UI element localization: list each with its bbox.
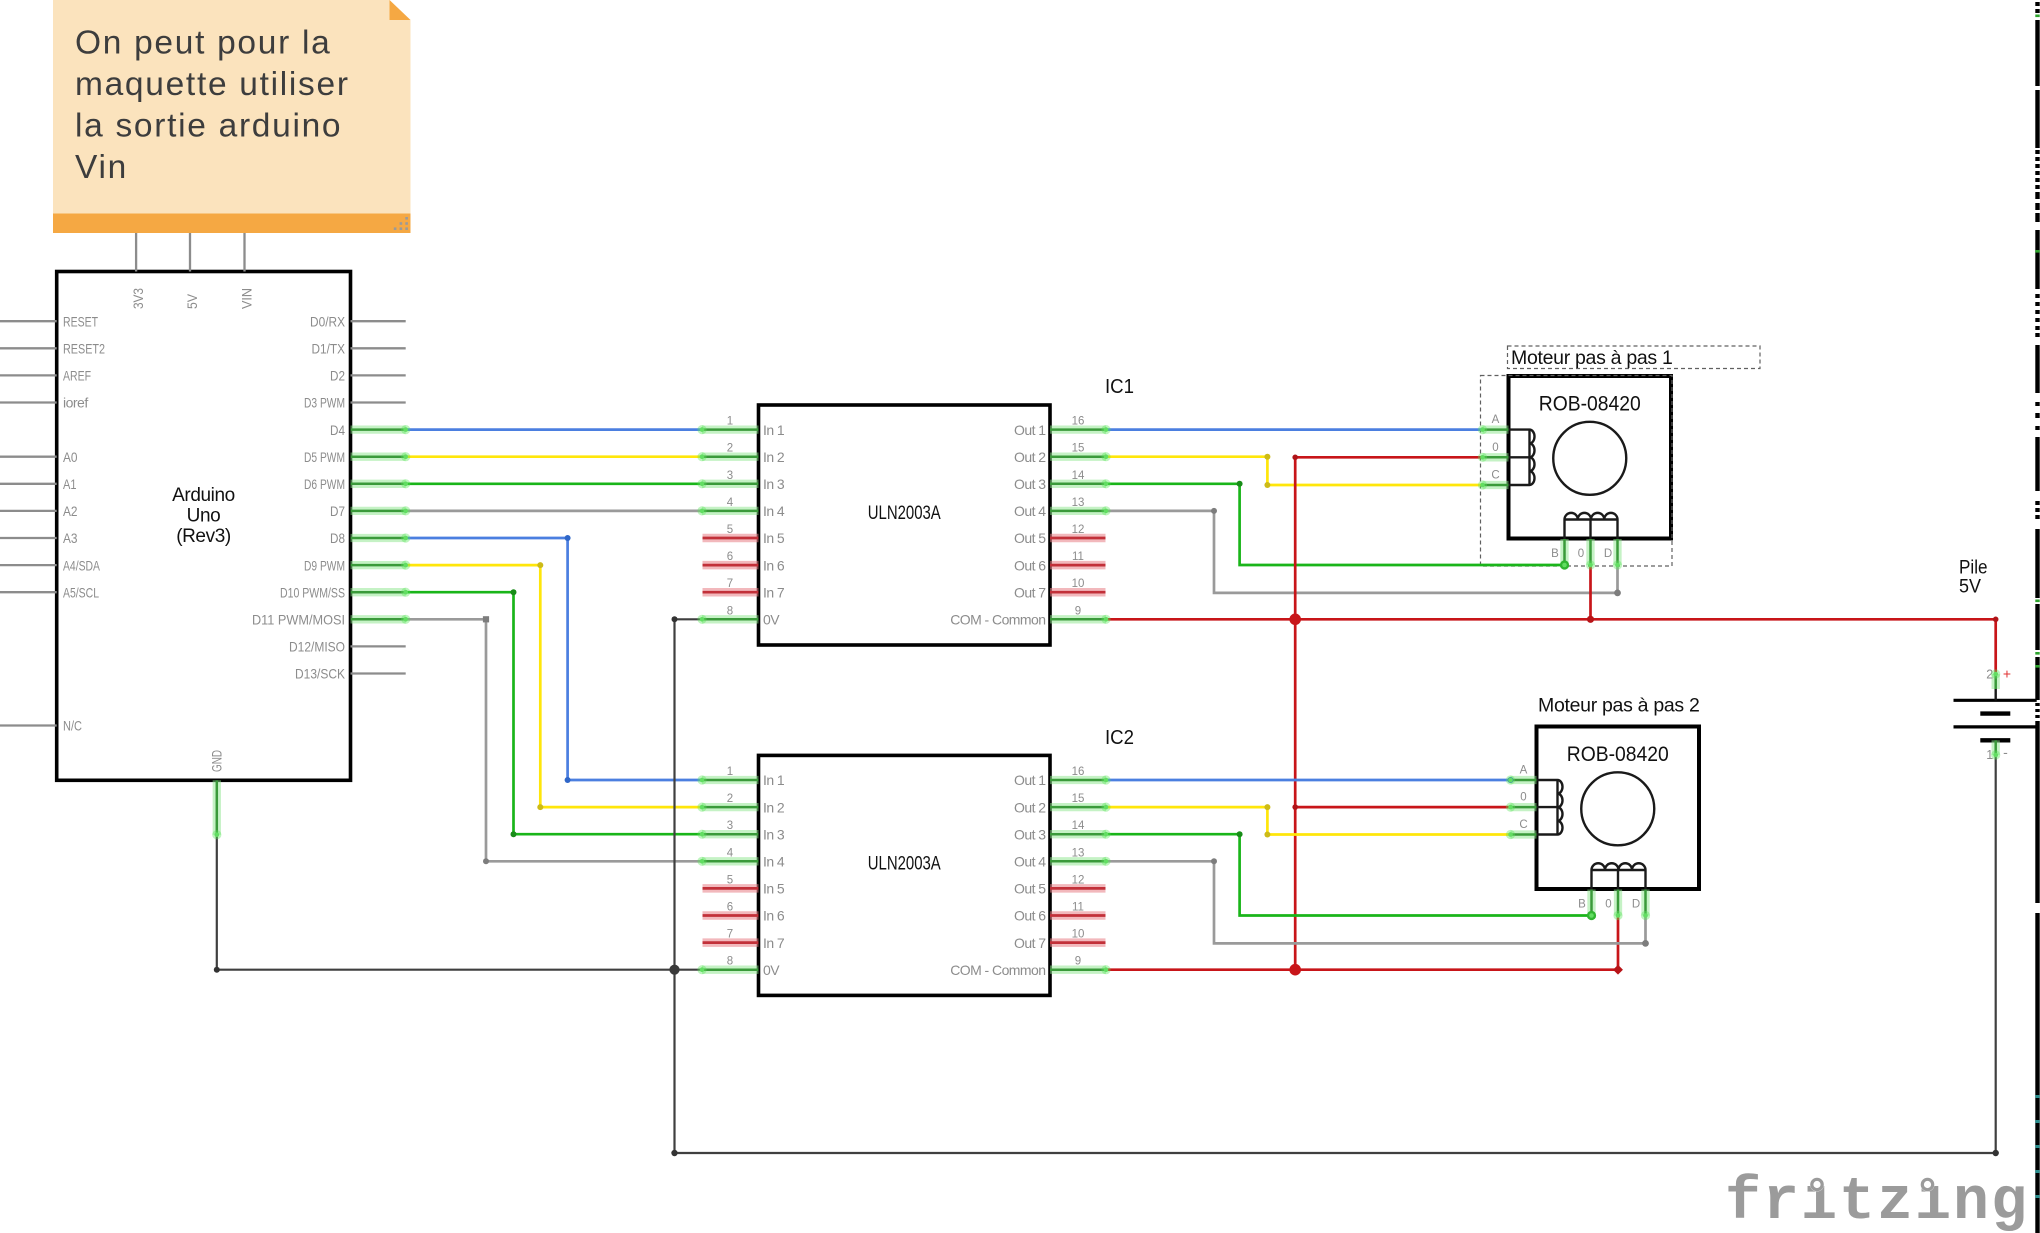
svg-text:Moteur pas à pas 2: Moteur pas à pas 2 (1538, 695, 1700, 717)
svg-text:4: 4 (727, 497, 734, 509)
svg-text:RESET: RESET (63, 313, 98, 329)
motor M1 pin A (1507, 428, 1530, 430)
wire D11 bend points (483, 616, 489, 622)
arduino pin D12/MISO (351, 645, 406, 647)
svg-text:A: A (1520, 765, 1528, 777)
IC IC2 pin 15 (Out 2) (1050, 803, 1106, 811)
wire D8 to IC2 In1 (blue) (406, 538, 702, 780)
wire IC2 Out1 to M2 pin A (blue) (1106, 779, 1511, 782)
svg-text:D4: D4 (330, 422, 345, 438)
IC IC1 pin 6 (In 6) (703, 561, 759, 570)
svg-text:2: 2 (727, 793, 733, 805)
svg-text:In 2: In 2 (763, 799, 785, 815)
motor M2 (ROB-08420 stepper) body (1537, 727, 1700, 890)
svg-text:Out 2: Out 2 (1014, 449, 1046, 465)
svg-text:D: D (1632, 899, 1640, 911)
svg-text:COM - Common: COM - Common (950, 612, 1045, 628)
wire D8 bend points (565, 535, 571, 541)
wire D10 to IC2 In3 (green) (406, 592, 702, 834)
svg-text:0: 0 (1492, 442, 1498, 454)
battery BT1 plate + (long) (1954, 699, 2037, 702)
IC IC1 pin 2 (In 2) (702, 453, 759, 461)
svg-text:D10 PWM/SS: D10 PWM/SS (280, 584, 345, 600)
svg-text:8: 8 (727, 956, 733, 968)
svg-text:15: 15 (1072, 793, 1085, 805)
motor M2 left winding (coil A-0-C) (1558, 780, 1563, 835)
svg-text:In 4: In 4 (763, 854, 785, 870)
arduino pin D8 (351, 534, 406, 542)
IC IC1 (ULN2003A) body (759, 405, 1051, 645)
svg-text:7: 7 (727, 929, 733, 941)
junction M1-0 on +5V bus (1587, 616, 1594, 623)
wire Out2 bend points (1264, 454, 1270, 460)
svg-text:Out 4: Out 4 (1014, 503, 1046, 519)
svg-text:D2: D2 (330, 368, 345, 384)
svg-text:C: C (1491, 470, 1499, 482)
motor M2 pin B (1590, 870, 1592, 891)
junction GND net (669, 965, 679, 975)
svg-text:D0/RX: D0/RX (310, 313, 346, 329)
motor M1 pin B (1563, 520, 1565, 541)
IC IC1 pin 10 (Out 7) (1050, 588, 1106, 597)
svg-text:VIN: VIN (239, 288, 255, 309)
IC IC2 pin 6 (In 6) (703, 911, 759, 920)
note drag handle dots (405, 217, 408, 220)
wire D4 to IC1 In1 (blue) (406, 428, 702, 431)
IC IC2 pin 4 (In 4) (702, 857, 759, 865)
svg-text:D3 PWM: D3 PWM (304, 395, 345, 411)
arduino pin A0 (0, 456, 57, 458)
svg-text:0V: 0V (763, 612, 780, 628)
wire D9 to IC2 In2 (yellow) (406, 565, 702, 807)
motor M2 pin D (1644, 870, 1646, 891)
svg-text:D11 PWM/MOSI: D11 PWM/MOSI (252, 612, 345, 628)
junction at M1 pin B (1560, 560, 1569, 569)
wire GND bend point (214, 967, 220, 973)
arduino pin A3 (0, 537, 57, 539)
svg-text:Out 6: Out 6 (1014, 908, 1046, 924)
svg-text:A4/SDA: A4/SDA (63, 557, 100, 573)
wire Arduino GND to IC2 0V (black) (217, 835, 702, 970)
wire +5V bus branch to M2 pin 0 (red) (1295, 806, 1510, 809)
svg-text:4: 4 (727, 847, 734, 859)
motor M1 label box (dashed) (1508, 346, 1761, 369)
svg-text:15: 15 (1072, 443, 1085, 455)
arduino pin A1 (0, 483, 57, 485)
arduino pin D5 PWM (351, 453, 406, 461)
motor M2 bottom winding (coil B-0-D) (1592, 863, 1646, 870)
wire IC1 Out3 to M1 pin B (green) (1106, 484, 1565, 565)
arduino pin A2 (0, 510, 57, 512)
IC IC2 pin 11 (Out 6) (1050, 911, 1106, 920)
svg-text:14: 14 (1072, 470, 1085, 482)
wire IC1 COM to battery + (red) (1106, 619, 1996, 674)
svg-text:11: 11 (1072, 551, 1084, 563)
svg-text:0: 0 (1520, 792, 1526, 804)
arduino U1 (Arduino Uno Rev3) body (57, 272, 351, 781)
note fold corner (390, 0, 411, 20)
motor M1 pin C (1507, 484, 1530, 486)
svg-text:A1: A1 (63, 476, 77, 492)
wire Out3 bend point (1237, 481, 1243, 487)
motor M2 pin C (1535, 833, 1558, 835)
svg-text:B: B (1578, 899, 1586, 911)
svg-text:0: 0 (1605, 899, 1611, 911)
arduino pin D3 PWM (351, 401, 406, 403)
svg-text:RESET2: RESET2 (63, 341, 105, 357)
IC IC1 pin 5 (In 5) (703, 534, 759, 543)
svg-text:3V3: 3V3 (130, 288, 146, 309)
arduino pin D0/RX (351, 320, 406, 322)
svg-text:(Rev3): (Rev3) (176, 526, 231, 547)
svg-text:Out 1: Out 1 (1014, 422, 1046, 438)
svg-text:AREF: AREF (63, 368, 91, 384)
svg-text:D7: D7 (330, 503, 345, 519)
svg-text:GND: GND (209, 750, 225, 772)
wire D11 to IC2 In4 (gray) (406, 619, 702, 861)
arduino pin D1/TX (351, 347, 406, 349)
svg-text:A0: A0 (63, 449, 78, 465)
wire +5V vertical bus to M1 pin 0 (red) (1295, 457, 1482, 969)
svg-text:2: 2 (727, 443, 733, 455)
wire IC1 Out2 to M1 pin C (yellow) (1106, 457, 1483, 485)
IC IC1 pin 3 (In 3) (702, 480, 759, 488)
svg-text:Out 5: Out 5 (1014, 530, 1046, 546)
wire D9 bend points (537, 562, 543, 568)
battery BT1 plate - (short) (1980, 738, 2010, 742)
arduino pin GND (213, 780, 221, 834)
svg-text:14: 14 (1072, 820, 1085, 832)
svg-text:16: 16 (1072, 416, 1085, 428)
svg-text:0V: 0V (763, 962, 780, 978)
svg-text:5V: 5V (184, 293, 200, 309)
IC IC2 pin 1 (In 1) (702, 776, 759, 784)
note bottom bar (53, 214, 411, 234)
svg-text:D1/TX: D1/TX (312, 341, 346, 357)
arduino pin ioref (0, 401, 57, 403)
svg-text:Out 5: Out 5 (1014, 881, 1046, 897)
note (sticky note) (53, 0, 411, 214)
svg-text:In 5: In 5 (763, 881, 785, 897)
junction at M2 pin B (1587, 911, 1596, 920)
motor M1 left winding (coil A-0-C) (1530, 430, 1535, 485)
svg-text:Pile: Pile (1959, 558, 1988, 579)
svg-text:la sortie arduino: la sortie arduino (75, 108, 342, 145)
battery BT1 pin 2 (+) (1994, 688, 1996, 700)
svg-text:In 2: In 2 (763, 449, 785, 465)
arduino pin D4 (351, 425, 406, 433)
svg-text:9: 9 (1075, 605, 1081, 617)
arduino pin VIN (243, 233, 245, 272)
motor M1 pin 0 (1589, 520, 1591, 541)
arduino pin D6 PWM (351, 480, 406, 488)
svg-text:In 3: In 3 (763, 826, 785, 842)
IC IC1 pin 8 (0V) (702, 615, 759, 623)
IC IC1 pin 11 (Out 6) (1050, 561, 1106, 570)
IC IC2 pin 16 (Out 1) (1050, 776, 1106, 784)
wire red corner marker (1613, 965, 1623, 975)
svg-text:D: D (1604, 548, 1612, 560)
IC IC1 pin 13 (Out 4) (1050, 507, 1106, 515)
arduino pin D13/SCK (351, 672, 406, 674)
IC IC1 pin 1 (In 1) (702, 425, 759, 433)
svg-text:1: 1 (727, 766, 733, 778)
wire D6 to IC1 In3 (green) (406, 482, 702, 485)
svg-text:11: 11 (1072, 902, 1084, 914)
IC IC2 pin 9 (COM - Common) (1050, 966, 1106, 974)
svg-text:ioref: ioref (63, 395, 88, 411)
svg-text:IC2: IC2 (1105, 727, 1134, 749)
IC IC1 pin 9 (COM - Common) (1050, 615, 1106, 623)
svg-text:A: A (1492, 414, 1500, 426)
wire M1 bottom 0 to +5V bus (red) (1589, 565, 1592, 619)
IC IC1 pin 7 (In 7) (703, 588, 759, 597)
svg-text:ROB-08420: ROB-08420 (1567, 743, 1669, 766)
svg-text:In 1: In 1 (763, 422, 785, 438)
junction +5V bus / IC1 COM (1289, 614, 1301, 626)
svg-text:In 3: In 3 (763, 476, 785, 492)
svg-text:16: 16 (1072, 766, 1085, 778)
wire Out4 bend points (1211, 508, 1217, 514)
svg-text:3: 3 (727, 470, 733, 482)
svg-text:On peut pour la: On peut pour la (75, 25, 331, 62)
arduino pin D7 (351, 507, 406, 515)
motor M2 pin 0 (1617, 870, 1619, 891)
motor M2 pin 0 (1535, 806, 1558, 808)
svg-text:C: C (1519, 819, 1527, 831)
junction +5V bus / IC2 COM (1289, 964, 1301, 976)
svg-text:10: 10 (1072, 578, 1085, 590)
svg-text:B: B (1551, 548, 1559, 560)
svg-text:Vin: Vin (75, 149, 128, 186)
pin connection tip markers (401, 425, 410, 434)
svg-text:In 7: In 7 (763, 584, 785, 600)
svg-text:In 5: In 5 (763, 530, 785, 546)
arduino pin 5V (189, 233, 191, 272)
svg-text:In 7: In 7 (763, 935, 785, 951)
svg-text:A5/SCL: A5/SCL (63, 584, 99, 600)
svg-text:12: 12 (1072, 874, 1085, 886)
svg-text:A3: A3 (63, 530, 78, 546)
svg-text:ULN2003A: ULN2003A (868, 503, 941, 524)
arduino pin AREF (0, 374, 57, 376)
svg-text:13: 13 (1072, 497, 1085, 509)
svg-text:13: 13 (1072, 847, 1085, 859)
arduino pin A4/SDA (0, 564, 57, 566)
IC IC1 pin 14 (Out 3) (1050, 480, 1106, 488)
svg-text:In 6: In 6 (763, 908, 785, 924)
svg-text:Uno: Uno (187, 506, 221, 527)
IC IC2 pin 2 (In 2) (702, 803, 759, 811)
IC IC2 pin 5 (In 5) (703, 884, 759, 893)
battery BT1 plate (short) (1980, 711, 2010, 715)
motor M2 pin A (1535, 779, 1558, 781)
arduino pin D9 PWM (351, 561, 406, 569)
svg-text:1: 1 (727, 416, 733, 428)
wire blue end dot (1508, 777, 1514, 783)
battery BT1 plate (long) (1954, 725, 2037, 728)
svg-text:N/C: N/C (63, 718, 82, 734)
svg-text:D12/MISO: D12/MISO (289, 639, 345, 655)
wire IC2 Out3 to M2 pin B (green) (1106, 834, 1592, 915)
wire IC2 Out4 to M2 pin D (gray) (1106, 861, 1646, 943)
svg-text:Out 1: Out 1 (1014, 772, 1046, 788)
svg-text:IC1: IC1 (1105, 376, 1134, 398)
wire red bus top bend (1292, 455, 1298, 461)
arduino pin RESET (0, 320, 57, 322)
battery BT1 pin 1 (-) (1992, 740, 2000, 755)
svg-text:5V: 5V (1959, 577, 1981, 598)
wire IC2-Out3 bend point (1237, 831, 1243, 837)
svg-text:Out 2: Out 2 (1014, 799, 1046, 815)
arduino pin D11 PWM/MOSI (351, 615, 406, 623)
wire battery - to IC1 0V (black) (675, 619, 1996, 1153)
wire D10 bend points (511, 589, 517, 595)
svg-text:frıtzıng: frıtzıng (1725, 1169, 2029, 1233)
wire IC2 Out2 to M2 pin C (yellow) (1106, 807, 1511, 834)
IC IC2 (ULN2003A) body (759, 755, 1051, 995)
wire red bend at battery (1993, 617, 1999, 623)
arduino pin A5/SCL (0, 591, 57, 593)
IC IC2 pin 3 (In 3) (702, 830, 759, 838)
wire D5 to IC1 In2 (yellow) (406, 455, 702, 458)
svg-text:D13/SCK: D13/SCK (295, 666, 346, 682)
wire IC2-Out4 bend points (1211, 858, 1217, 864)
svg-text:Moteur pas à pas 1: Moteur pas à pas 1 (1511, 347, 1673, 369)
IC IC2 pin 7 (In 7) (703, 938, 759, 947)
motor M1 bottom winding (coil B-0-D) (1565, 513, 1618, 520)
svg-text:D5 PWM: D5 PWM (304, 449, 345, 465)
IC IC2 pin 12 (Out 5) (1050, 884, 1106, 893)
svg-text:5: 5 (727, 874, 733, 886)
svg-text:D6 PWM: D6 PWM (304, 476, 345, 492)
svg-text:D8: D8 (330, 530, 345, 546)
motor M1 pin D (1616, 520, 1618, 541)
motor M2 rotor circle (1581, 772, 1654, 845)
svg-text:Out 3: Out 3 (1014, 826, 1046, 842)
wire IC2 COM to M2 bottom 0 (red) (1106, 916, 1618, 970)
motor M1 (ROB-08420 stepper) body (1509, 376, 1672, 539)
svg-text:-: - (2003, 744, 2008, 760)
motor M1 pin 0 (1507, 456, 1530, 458)
svg-text:ULN2003A: ULN2003A (868, 853, 941, 874)
svg-text:0: 0 (1578, 548, 1584, 560)
IC IC2 pin 8 (0V) (702, 966, 759, 974)
svg-text:6: 6 (727, 551, 733, 563)
cropped part at right image edge (2035, 2, 2039, 6)
svg-text:D9 PWM: D9 PWM (304, 557, 345, 573)
svg-text:maquette utiliser: maquette utiliser (75, 66, 350, 103)
svg-text:9: 9 (1075, 956, 1081, 968)
svg-text:5: 5 (727, 524, 733, 536)
wire IC1 Out1 to M1 pin A (blue) (1106, 428, 1483, 431)
svg-text:COM - Common: COM - Common (950, 962, 1045, 978)
svg-text:In 4: In 4 (763, 503, 785, 519)
svg-text:7: 7 (727, 578, 733, 590)
svg-text:10: 10 (1072, 929, 1085, 941)
svg-text:A2: A2 (63, 503, 78, 519)
IC IC2 pin 14 (Out 3) (1050, 830, 1106, 838)
IC IC2 pin 10 (Out 7) (1050, 938, 1106, 947)
svg-text:Out 6: Out 6 (1014, 557, 1046, 573)
svg-text:+: + (2003, 666, 2011, 682)
wire IC2-Out2 bend points (1264, 804, 1270, 810)
IC IC1 pin 16 (Out 1) (1050, 425, 1106, 433)
svg-text:Out 7: Out 7 (1014, 935, 1046, 951)
IC IC1 pin 15 (Out 2) (1050, 453, 1106, 461)
svg-text:3: 3 (727, 820, 733, 832)
IC IC1 pin 12 (Out 5) (1050, 534, 1106, 543)
svg-text:Arduino: Arduino (172, 485, 235, 506)
svg-text:Out 7: Out 7 (1014, 584, 1046, 600)
svg-text:8: 8 (727, 605, 733, 617)
svg-text:In 6: In 6 (763, 557, 785, 573)
arduino pin D2 (351, 374, 406, 376)
svg-text:ROB-08420: ROB-08420 (1539, 393, 1641, 416)
arduino pin 3V3 (135, 233, 137, 272)
junction +5V bus branch (1292, 804, 1298, 810)
svg-text:Out 3: Out 3 (1014, 476, 1046, 492)
arduino pin RESET2 (0, 347, 57, 349)
IC IC2 pin 13 (Out 4) (1050, 857, 1106, 865)
wire black bend points (672, 616, 678, 622)
motor M1 rotor circle (1553, 422, 1626, 495)
svg-text:Out 4: Out 4 (1014, 854, 1046, 870)
IC IC1 pin 4 (In 4) (702, 507, 759, 515)
wire D7 to IC1 In4 (gray) (406, 510, 702, 513)
svg-text:In 1: In 1 (763, 772, 785, 788)
wire IC1 Out4 to M1 pin D (gray) (1106, 511, 1618, 593)
svg-text:6: 6 (727, 902, 733, 914)
svg-text:12: 12 (1072, 524, 1085, 536)
arduino pin D10 PWM/SS (351, 588, 406, 596)
motor M1 selection box (dashed) (1481, 376, 1673, 567)
arduino pin N/C (0, 724, 57, 726)
